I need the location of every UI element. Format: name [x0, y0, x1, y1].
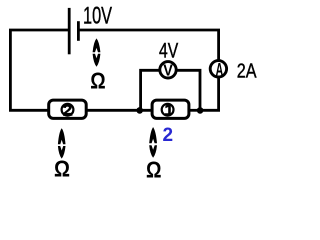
svg-text:2: 2	[163, 125, 174, 146]
svg-text:Ω: Ω	[54, 156, 70, 180]
svg-text:2A: 2A	[237, 61, 257, 83]
svg-text:Ω: Ω	[146, 157, 162, 181]
svg-text:4V: 4V	[159, 40, 178, 63]
svg-text:10V: 10V	[83, 3, 112, 30]
svg-text:V: V	[163, 63, 173, 80]
svg-text:A: A	[216, 59, 224, 80]
svg-text:Ω: Ω	[90, 68, 105, 94]
